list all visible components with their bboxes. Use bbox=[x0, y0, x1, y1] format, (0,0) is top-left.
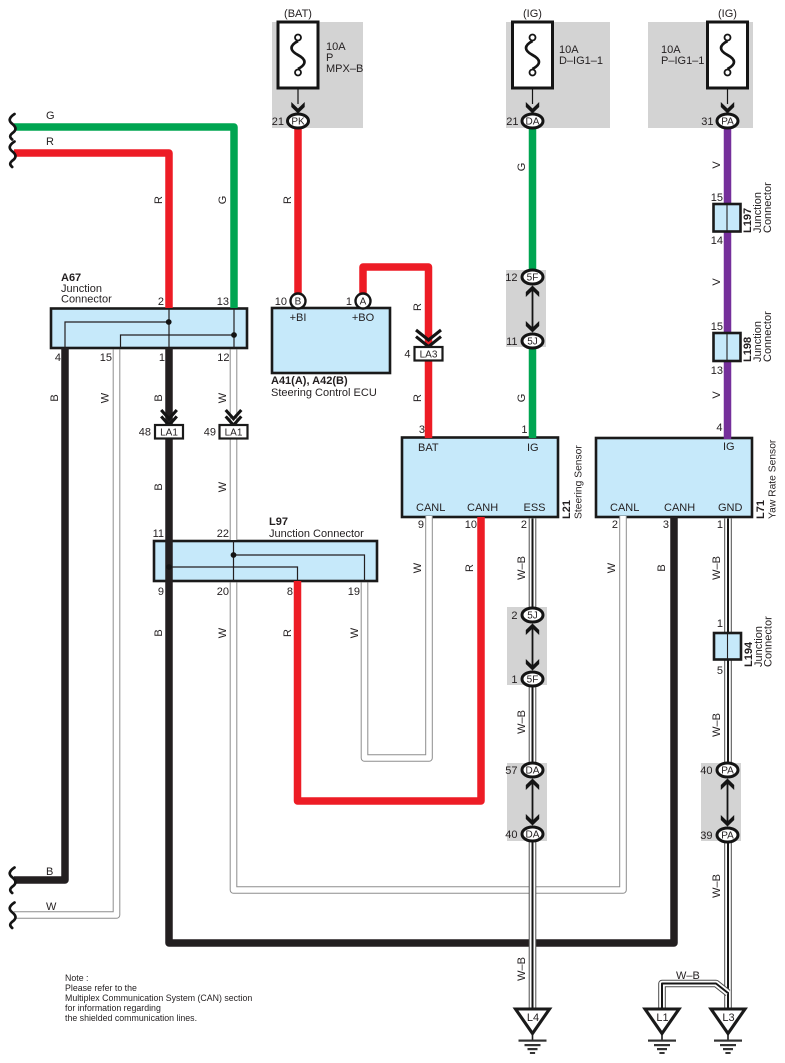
svg-text:W: W bbox=[606, 562, 618, 573]
connector pair arrow DA-DA bbox=[526, 779, 539, 826]
wire W-B (L21 ESS to 5J) bbox=[529, 519, 537, 610]
fuse panel shading (IG) D-IG1-1 bbox=[506, 22, 610, 128]
connector pair shading 5J/5F bbox=[507, 607, 547, 685]
terminal oval 2 5J bbox=[522, 608, 543, 622]
svg-text:B: B bbox=[46, 866, 53, 878]
svg-text:V: V bbox=[711, 278, 723, 286]
svg-text:14: 14 bbox=[711, 235, 723, 247]
ground L1 bbox=[645, 1009, 679, 1054]
L71 name bbox=[755, 439, 779, 519]
svg-text:21: 21 bbox=[272, 116, 284, 128]
A67 internal link pin4 bbox=[65, 322, 169, 348]
L198 name bbox=[742, 311, 774, 362]
svg-text:8: 8 bbox=[287, 586, 293, 598]
svg-text:W–B: W–B bbox=[676, 970, 700, 982]
svg-text:31: 31 bbox=[701, 116, 713, 128]
connector pair arrow 5F-5J bbox=[526, 286, 539, 333]
svg-text:Please refer to the: Please refer to the bbox=[65, 983, 137, 993]
wire R (L21 CANH to L97 pin 8) bbox=[298, 517, 482, 801]
terminal oval 39 PA bbox=[717, 828, 738, 842]
svg-text:W–B: W–B bbox=[516, 957, 528, 981]
svg-text:Connector: Connector bbox=[61, 294, 112, 306]
L97 name bbox=[269, 516, 364, 540]
svg-text:40: 40 bbox=[505, 829, 517, 841]
wire W-B (PA to ground L3) bbox=[724, 842, 732, 1011]
ground L4 bbox=[516, 1009, 550, 1054]
svg-text:DA: DA bbox=[526, 766, 540, 777]
svg-text:3: 3 bbox=[419, 424, 425, 436]
svg-text:1: 1 bbox=[159, 352, 165, 364]
svg-text:2: 2 bbox=[158, 296, 164, 308]
A67 internal bus pin2-pin1 bbox=[168, 309, 170, 349]
splice box 49 LA1 bbox=[220, 425, 248, 439]
L97 internal link pin8 bbox=[169, 567, 298, 581]
wire W (L97 pin 19 to L21 CANL) bbox=[365, 516, 430, 758]
ground L3 bbox=[711, 1009, 745, 1054]
svg-text:22: 22 bbox=[217, 528, 229, 540]
continuation squiggle B bbox=[10, 868, 16, 894]
svg-text:10: 10 bbox=[275, 296, 287, 308]
svg-text:11: 11 bbox=[506, 336, 517, 348]
svg-text:MPX–B: MPX–B bbox=[326, 63, 363, 75]
svg-text:+BI: +BI bbox=[290, 312, 307, 324]
svg-text:2: 2 bbox=[521, 519, 527, 531]
svg-text:G: G bbox=[516, 394, 528, 403]
svg-text:DA: DA bbox=[526, 830, 540, 841]
wire B (A67 pin 1 to L97 pin 11, pin 9 to L71 CANH) bbox=[169, 348, 674, 943]
svg-text:Multiplex Communication System: Multiplex Communication System (CAN) sec… bbox=[65, 993, 252, 1003]
svg-text:1: 1 bbox=[521, 424, 527, 436]
L97 junction dot pin11 bbox=[166, 564, 172, 570]
L21 name bbox=[561, 445, 585, 519]
svg-text:1: 1 bbox=[717, 618, 723, 630]
svg-text:5J: 5J bbox=[527, 611, 538, 622]
wire W (L97 pin 20 to L71 CANL) bbox=[234, 516, 624, 890]
splice arrow chevrons 4 LA3 bbox=[416, 330, 441, 347]
wire W-B (branch to ground L1) bbox=[662, 984, 728, 1011]
terminal oval 21 PK bbox=[288, 114, 309, 128]
svg-text:15: 15 bbox=[711, 321, 723, 333]
wire R (ECU +BO via LA3 to L21 BAT) bbox=[363, 267, 429, 438]
svg-text:W–B: W–B bbox=[516, 710, 528, 734]
svg-text:21: 21 bbox=[506, 116, 518, 128]
svg-text:R: R bbox=[282, 196, 294, 204]
svg-text:PA: PA bbox=[721, 831, 734, 842]
svg-text:48: 48 bbox=[139, 427, 151, 439]
svg-text:3: 3 bbox=[663, 519, 669, 531]
A67 junction dot pin13 bbox=[231, 332, 237, 338]
svg-text:+BO: +BO bbox=[352, 312, 375, 324]
connector pair shading DA/DA bbox=[507, 763, 547, 841]
svg-text:40: 40 bbox=[700, 765, 712, 777]
svg-text:R: R bbox=[412, 303, 424, 311]
svg-text:G: G bbox=[516, 163, 528, 172]
svg-text:W: W bbox=[46, 901, 57, 913]
terminal oval 12 5F bbox=[522, 270, 543, 284]
terminal oval 21 DA bbox=[522, 114, 543, 128]
svg-text:L97: L97 bbox=[269, 516, 288, 528]
svg-text:CANH: CANH bbox=[467, 502, 498, 514]
svg-text:D–IG1–1: D–IG1–1 bbox=[559, 55, 603, 67]
terminal oval 40 DA bbox=[522, 827, 543, 841]
svg-text:R: R bbox=[282, 629, 294, 637]
svg-text:Connector: Connector bbox=[762, 311, 774, 362]
junction connector L97 bbox=[154, 541, 377, 581]
L97 internal link pin19 bbox=[234, 555, 365, 581]
connector pair shading 5F/5J bbox=[506, 270, 546, 347]
fuse panel shading (IG) P-IG1-1 bbox=[648, 22, 753, 128]
svg-text:W: W bbox=[349, 627, 361, 638]
svg-text:13: 13 bbox=[217, 296, 229, 308]
L194 name bbox=[743, 616, 775, 667]
svg-text:Junction Connector: Junction Connector bbox=[269, 528, 364, 540]
svg-text:the shielded communication lin: the shielded communication lines. bbox=[65, 1013, 197, 1023]
svg-text:LA1: LA1 bbox=[225, 428, 243, 439]
yaw rate sensor L71 box bbox=[596, 438, 752, 517]
svg-text:PK: PK bbox=[291, 117, 305, 128]
svg-text:4: 4 bbox=[55, 352, 61, 364]
svg-text:Steering Sensor: Steering Sensor bbox=[574, 445, 585, 519]
svg-text:49: 49 bbox=[204, 427, 216, 439]
A67 internal link pin15 bbox=[121, 335, 235, 348]
svg-text:PA: PA bbox=[721, 117, 734, 128]
fuse 10A P MPX-B bbox=[278, 22, 318, 114]
wire G (left edge to A67 pin 13) bbox=[14, 127, 234, 308]
splice arrow chevrons 49 LA1 bbox=[226, 410, 242, 425]
svg-text:L1: L1 bbox=[656, 1012, 668, 1024]
svg-text:G: G bbox=[46, 110, 55, 122]
svg-text:39: 39 bbox=[700, 830, 712, 842]
svg-text:W: W bbox=[100, 392, 112, 403]
svg-text:B: B bbox=[153, 629, 165, 636]
junction connector L194 bbox=[714, 633, 741, 660]
A67 junction dot pin2 bbox=[166, 319, 172, 325]
svg-text:R: R bbox=[464, 564, 476, 572]
fuse 10A P-IG1-1 bbox=[708, 22, 748, 114]
svg-text:Steering Control ECU: Steering Control ECU bbox=[271, 387, 377, 399]
svg-text:L3: L3 bbox=[722, 1012, 734, 1024]
svg-text:for information regarding: for information regarding bbox=[65, 1003, 161, 1013]
splice box 48 LA1 bbox=[155, 425, 183, 439]
continuation squiggle G bbox=[10, 114, 16, 140]
svg-text:LA1: LA1 bbox=[160, 428, 178, 439]
svg-text:13: 13 bbox=[711, 365, 723, 377]
svg-text:(IG): (IG) bbox=[523, 8, 542, 20]
wire R (left edge to A67 pin 2) bbox=[14, 153, 169, 308]
wire V (fuse P-IG1-1 to L71 IG) bbox=[724, 127, 732, 439]
svg-text:1: 1 bbox=[346, 296, 352, 308]
svg-text:2: 2 bbox=[612, 519, 618, 531]
svg-text:Note :: Note : bbox=[65, 973, 88, 983]
svg-text:IG: IG bbox=[527, 442, 539, 454]
svg-text:15: 15 bbox=[100, 352, 112, 364]
svg-text:12: 12 bbox=[217, 352, 229, 364]
svg-text:19: 19 bbox=[348, 586, 360, 598]
svg-text:G: G bbox=[217, 196, 229, 205]
svg-text:W–B: W–B bbox=[711, 556, 723, 580]
svg-text:W: W bbox=[412, 562, 424, 573]
svg-text:57: 57 bbox=[505, 765, 517, 777]
L97 internal bus pin22-pin20 bbox=[233, 541, 235, 581]
svg-text:BAT: BAT bbox=[418, 442, 439, 454]
svg-text:V: V bbox=[711, 391, 723, 399]
ECU terminal circle A pin 1 bbox=[356, 294, 371, 309]
svg-text:15: 15 bbox=[711, 192, 723, 204]
svg-text:W–B: W–B bbox=[711, 874, 723, 898]
svg-text:5F: 5F bbox=[527, 273, 539, 284]
svg-text:ESS: ESS bbox=[524, 502, 546, 514]
L97 junction dot pin22 bbox=[231, 552, 237, 558]
svg-text:IG: IG bbox=[723, 441, 735, 453]
wire G (fuse D-IG1-1 to 5F) bbox=[529, 127, 537, 271]
connector pair shading PA/PA bbox=[701, 763, 741, 841]
wire W-B (5F to DA) bbox=[529, 686, 537, 765]
svg-text:W: W bbox=[217, 481, 229, 492]
svg-text:V: V bbox=[711, 161, 723, 169]
svg-text:R: R bbox=[46, 136, 54, 148]
terminal oval 1 5F bbox=[522, 672, 543, 686]
svg-text:1: 1 bbox=[717, 519, 723, 531]
svg-text:B: B bbox=[295, 297, 302, 308]
wire R (fuse MPX-B to ECU +BI) bbox=[294, 127, 302, 294]
svg-text:R: R bbox=[153, 196, 165, 204]
fuse 10A D-IG1-1 bbox=[513, 22, 553, 114]
note text bbox=[65, 973, 252, 1023]
svg-text:W–B: W–B bbox=[711, 713, 723, 737]
wire W (A67 pin 15 to left edge) bbox=[14, 350, 117, 916]
terminal oval 11 5J bbox=[522, 334, 543, 348]
junction connector L198 bbox=[714, 333, 741, 361]
svg-text:5F: 5F bbox=[527, 675, 539, 686]
L197 name bbox=[742, 182, 774, 233]
svg-text:L4: L4 bbox=[527, 1012, 539, 1024]
svg-text:L21: L21 bbox=[561, 500, 573, 519]
splice arrow chevrons 48 LA1 bbox=[161, 410, 177, 425]
ECU A41/A42 box bbox=[272, 308, 390, 373]
svg-text:10: 10 bbox=[465, 519, 477, 531]
svg-text:1: 1 bbox=[511, 674, 517, 686]
svg-text:9: 9 bbox=[158, 586, 164, 598]
svg-text:B: B bbox=[656, 564, 668, 571]
svg-text:Yaw Rate Sensor: Yaw Rate Sensor bbox=[768, 439, 779, 519]
ECU terminal circle B pin 10 bbox=[291, 294, 306, 309]
svg-text:W–B: W–B bbox=[516, 556, 528, 580]
svg-text:DA: DA bbox=[526, 117, 540, 128]
wire G (5J to L21 IG) bbox=[529, 348, 537, 439]
svg-text:Connector: Connector bbox=[762, 182, 774, 233]
svg-text:A41(A), A42(B): A41(A), A42(B) bbox=[271, 375, 348, 387]
wire W-B (L71 GND to PA) bbox=[724, 519, 732, 765]
connector pair arrow 5J-5F bbox=[526, 624, 539, 671]
junction connector A67 bbox=[51, 309, 247, 349]
terminal oval 57 DA bbox=[522, 763, 543, 777]
svg-text:5J: 5J bbox=[527, 337, 538, 348]
continuation squiggle W bbox=[10, 903, 16, 929]
svg-text:LA3: LA3 bbox=[420, 350, 438, 361]
svg-text:B: B bbox=[153, 394, 165, 401]
svg-text:B: B bbox=[153, 483, 165, 490]
junction connector L197 bbox=[714, 204, 741, 232]
svg-text:W: W bbox=[217, 627, 229, 638]
svg-text:A: A bbox=[360, 297, 367, 308]
svg-text:4: 4 bbox=[716, 422, 722, 434]
svg-text:GND: GND bbox=[718, 502, 743, 514]
svg-text:20: 20 bbox=[217, 586, 229, 598]
svg-text:W: W bbox=[217, 392, 229, 403]
svg-text:12: 12 bbox=[505, 272, 517, 284]
svg-text:5: 5 bbox=[717, 665, 723, 677]
svg-text:(BAT): (BAT) bbox=[284, 8, 312, 20]
svg-text:L71: L71 bbox=[755, 500, 767, 519]
svg-text:(IG): (IG) bbox=[718, 8, 737, 20]
wire W (A67 pin 12 to L97 pin 22) bbox=[230, 350, 238, 541]
connector pair arrow PA-PA bbox=[721, 779, 734, 827]
svg-text:PA: PA bbox=[721, 766, 734, 777]
continuation squiggle R bbox=[10, 142, 16, 168]
svg-text:9: 9 bbox=[418, 519, 424, 531]
wire B (A67 pin 4 to left edge) bbox=[14, 348, 65, 880]
svg-text:2: 2 bbox=[511, 610, 517, 622]
svg-text:CANL: CANL bbox=[416, 502, 445, 514]
svg-text:CANH: CANH bbox=[664, 502, 695, 514]
svg-text:R: R bbox=[412, 394, 424, 402]
terminal oval 40 PA bbox=[717, 763, 738, 777]
svg-text:CANL: CANL bbox=[610, 502, 639, 514]
terminal oval 31 PA bbox=[717, 114, 738, 128]
wire W-B (DA to ground L4) bbox=[529, 841, 537, 1011]
steering sensor L21 box bbox=[402, 438, 558, 518]
fuse panel shading (BAT) bbox=[272, 22, 363, 128]
svg-text:P–IG1–1: P–IG1–1 bbox=[661, 55, 704, 67]
svg-text:4: 4 bbox=[404, 349, 410, 361]
svg-text:11: 11 bbox=[153, 528, 164, 540]
A67 internal bus pin13-pin12 bbox=[233, 309, 235, 349]
svg-text:Connector: Connector bbox=[763, 616, 775, 667]
svg-text:B: B bbox=[49, 394, 61, 401]
splice box 4 LA3 bbox=[415, 347, 443, 361]
